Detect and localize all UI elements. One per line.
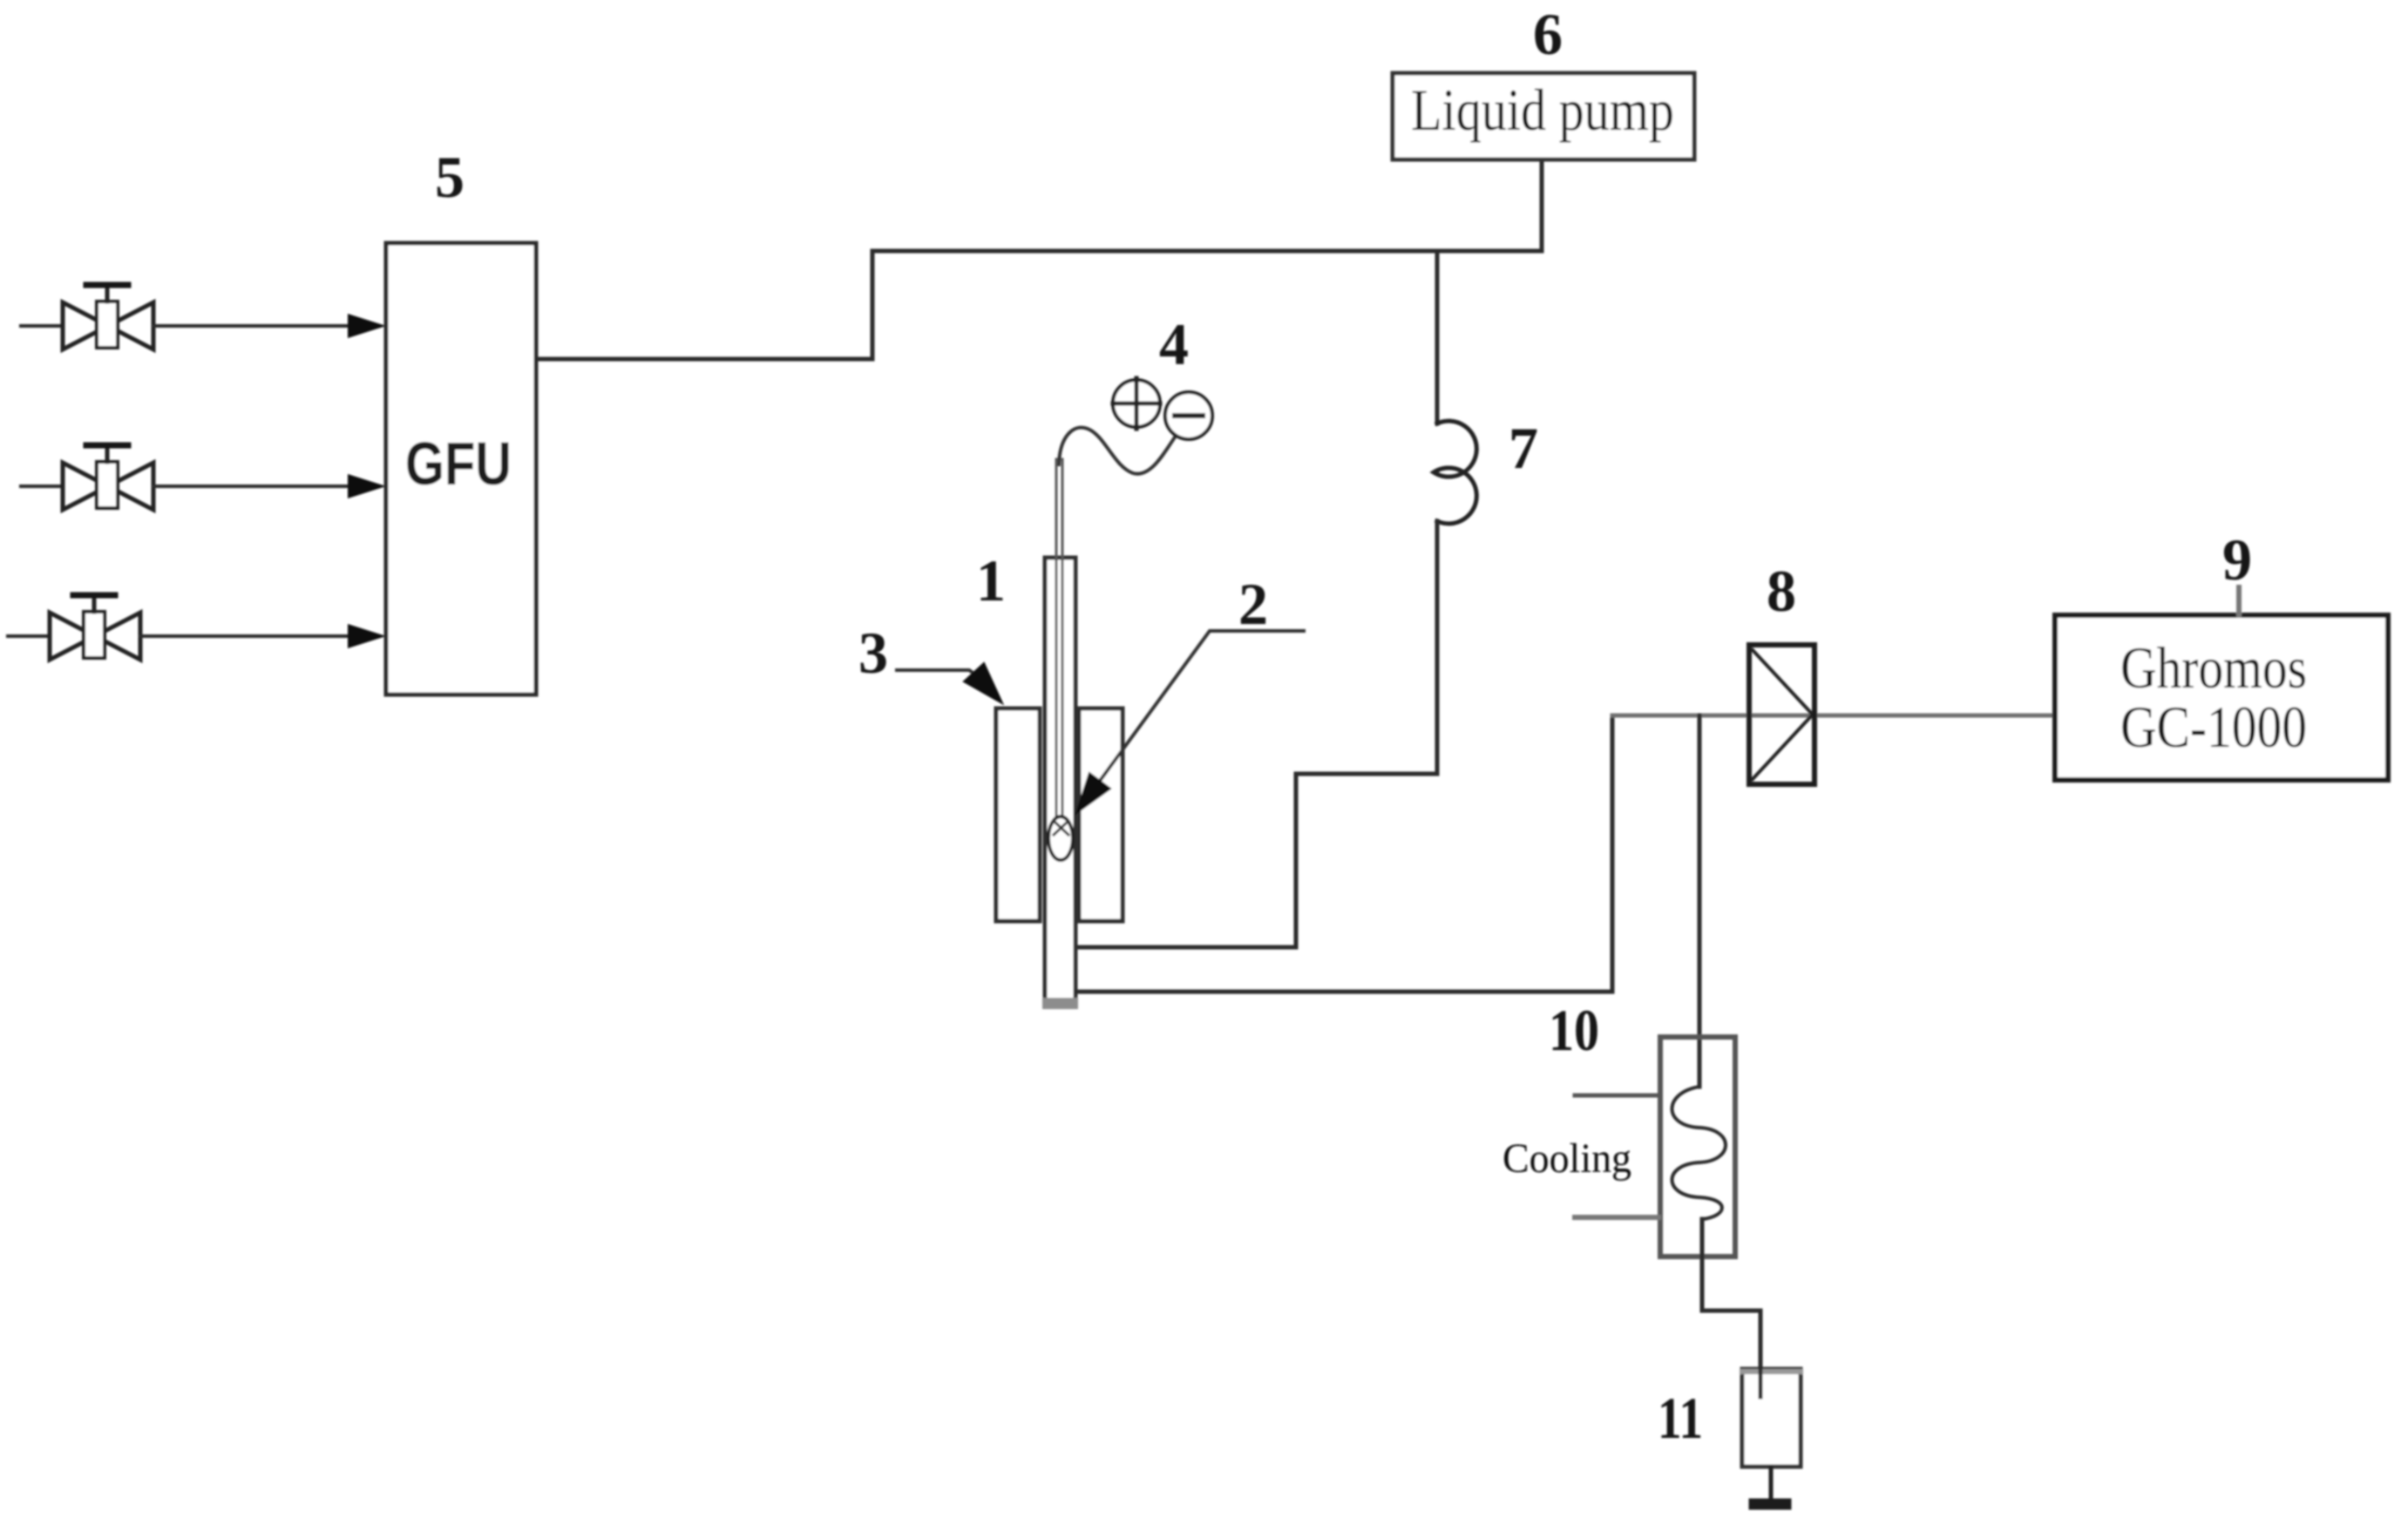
svg-text:1: 1 bbox=[976, 547, 1006, 613]
wire valve V-3 to GFU with arrowhead bbox=[140, 624, 386, 648]
svg-text:4: 4 bbox=[1159, 311, 1189, 377]
svg-text:7: 7 bbox=[1509, 415, 1538, 481]
cooling unit box 10 bbox=[1660, 1037, 1735, 1257]
valve V-1 (top gas inlet valve) bbox=[21, 285, 153, 349]
cooling water stub bottom bbox=[1575, 1215, 1658, 1220]
svg-text:Cooling: Cooling bbox=[1502, 1135, 1631, 1182]
flask top shade bbox=[1742, 1369, 1801, 1374]
pressure gauge 4: minus circle bbox=[1165, 392, 1212, 439]
wire cooling outlet to flask 11 bbox=[1702, 1219, 1760, 1369]
wire coil 7 down and step to reactor inlet bbox=[1075, 521, 1437, 947]
leader tick for label 9 bbox=[2236, 587, 2242, 615]
svg-text:10: 10 bbox=[1549, 997, 1599, 1063]
valve V-2 (middle gas inlet valve) bbox=[21, 445, 153, 510]
svg-text:GC-1000: GC-1000 bbox=[2120, 694, 2307, 760]
pressure gauge 4: curved capillary bbox=[1059, 428, 1178, 474]
wire GFU outlet bbox=[536, 357, 872, 362]
heater block 3 (left) bbox=[996, 708, 1040, 921]
heater block 3 (right) bbox=[1079, 708, 1123, 921]
svg-text:Liquid pump: Liquid pump bbox=[1411, 77, 1674, 143]
cooling water stub top bbox=[1575, 1094, 1658, 1098]
svg-text:9: 9 bbox=[2222, 526, 2252, 593]
svg-text:Ghromos: Ghromos bbox=[2120, 634, 2307, 701]
svg-text:3: 3 bbox=[858, 620, 888, 686]
catalyst bed 2 bbox=[1048, 817, 1073, 860]
wire reactor outlet to valve 8 riser bbox=[1075, 715, 1612, 992]
svg-text:11: 11 bbox=[1658, 1385, 1703, 1451]
wire valve V-1 to GFU with arrowhead bbox=[153, 314, 386, 338]
svg-text:2: 2 bbox=[1238, 571, 1268, 637]
flask drain bar bbox=[1754, 1499, 1786, 1510]
sampling valve 8 bbox=[1749, 645, 1814, 784]
GFU box (gas feeding unit, item 5) bbox=[386, 243, 536, 695]
thermocouple inner tube bbox=[1056, 459, 1062, 816]
leader for label 2 with arrowhead bbox=[1076, 631, 1304, 813]
coil 7 (saturator coil) bbox=[1434, 421, 1476, 524]
leader for label 3 with arrowhead bbox=[897, 663, 1002, 703]
GC box (item 9, chromatograph) bbox=[2055, 615, 2388, 780]
reactor bottom cap bbox=[1042, 998, 1078, 1009]
svg-text:5: 5 bbox=[435, 144, 465, 210]
svg-text:GFU: GFU bbox=[405, 430, 512, 498]
wire valve V-2 to GFU with arrowhead bbox=[153, 474, 386, 498]
valve V-3 (bottom gas inlet valve) bbox=[8, 595, 140, 660]
wire drop to cooling unit bbox=[1698, 715, 1702, 1087]
Liquid pump box (item 6) bbox=[1393, 73, 1694, 159]
wire riser bbox=[871, 251, 875, 359]
svg-text:8: 8 bbox=[1767, 558, 1796, 624]
cooling coil inside unit 10 bbox=[1672, 1087, 1726, 1219]
reactor tube 1 (outer wall) bbox=[1045, 558, 1075, 1004]
pressure gauge 4: plus circle bbox=[1113, 378, 1160, 429]
flask 11 (collector) bbox=[1742, 1369, 1801, 1467]
flask drain stem bbox=[1769, 1467, 1774, 1498]
wire top header bbox=[872, 249, 1542, 254]
svg-text:6: 6 bbox=[1533, 1, 1563, 67]
wire into flask bbox=[1759, 1369, 1763, 1397]
wire liquid pump drop bbox=[1540, 159, 1544, 251]
wire main line to GC bbox=[1612, 714, 2055, 718]
node junction at (1649,288) / wire down to coil bbox=[1435, 251, 1440, 424]
